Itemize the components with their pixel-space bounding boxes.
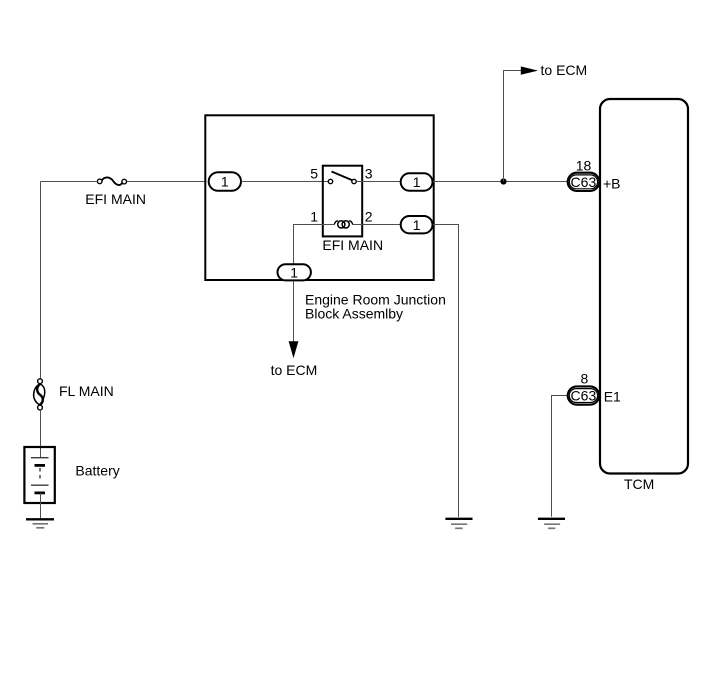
pin 2 label — [365, 209, 373, 225]
label to ECM (top) — [541, 62, 588, 78]
wire: coil pin 2 to right lower connector — [352, 224, 401, 226]
label E1 — [604, 389, 621, 405]
svg-text:C63: C63 — [571, 174, 597, 190]
svg-text:1: 1 — [290, 264, 298, 280]
wire: right upper connector to TCM +B — [433, 181, 568, 183]
fuse EFI MAIN — [97, 177, 126, 185]
svg-text:Block Assemlby: Block Assemlby — [305, 306, 403, 322]
wire: fuse to junction block — [127, 181, 207, 183]
svg-text:3: 3 — [365, 166, 373, 182]
relay EFI MAIN box — [323, 166, 362, 237]
svg-text:18: 18 — [576, 157, 592, 173]
svg-text:1: 1 — [221, 174, 229, 190]
svg-text:8: 8 — [581, 370, 589, 386]
svg-text:1: 1 — [413, 217, 421, 233]
wire: left connector to relay pin 5 — [241, 181, 328, 183]
arrow to ECM (top right) — [521, 66, 538, 74]
svg-text:Battery: Battery — [75, 462, 119, 478]
label TCM — [624, 476, 654, 492]
connector 1 (junction block right lower) — [401, 216, 433, 233]
wire: relay pin 3 to right upper connector — [357, 181, 402, 183]
pin 18 label — [576, 157, 592, 173]
svg-text:C63: C63 — [571, 388, 597, 404]
fusible link FL MAIN — [34, 379, 45, 410]
wire: bottom connector down to ECM arrow — [293, 281, 295, 342]
ground (battery) — [26, 519, 54, 528]
svg-text:+B: +B — [603, 175, 621, 191]
label to ECM (bottom) — [271, 362, 318, 378]
ground (relay coil) — [445, 519, 472, 529]
pin 1 label — [310, 209, 318, 225]
connector C63 (E1) — [568, 386, 600, 404]
pin 8 label — [581, 370, 589, 386]
wire: battery feed horizontal left segment — [41, 181, 97, 183]
svg-text:to ECM: to ECM — [271, 362, 318, 378]
label EFI MAIN (relay) — [322, 237, 383, 253]
wire: left vertical drop to FL MAIN — [40, 182, 42, 379]
wire: right lower connector to ground — [433, 225, 459, 518]
svg-text:5: 5 — [310, 166, 318, 182]
connector C63 (+B) — [568, 173, 600, 191]
wire: coil pin 1 to bottom connector — [294, 225, 336, 265]
wire: E1 to ground — [552, 396, 569, 517]
battery — [24, 447, 54, 503]
svg-text:EFI MAIN: EFI MAIN — [322, 237, 383, 253]
connector 1 (junction block left) — [209, 172, 241, 191]
svg-text:1: 1 — [413, 174, 421, 190]
wire: junction up and right to ECM arrow — [504, 71, 522, 182]
ground (E1) — [538, 519, 565, 529]
TCM box — [600, 99, 688, 474]
svg-text:FL MAIN: FL MAIN — [59, 383, 114, 399]
relay switch blade — [332, 172, 353, 181]
relay coil — [334, 221, 353, 228]
pin 3 label — [365, 166, 373, 182]
label +B — [603, 175, 621, 191]
connector 1 (junction block bottom) — [278, 264, 311, 280]
wire: FL MAIN to battery — [40, 410, 42, 458]
svg-text:E1: E1 — [604, 389, 621, 405]
label Battery — [75, 462, 119, 478]
label Engine Room Junction Block Assemlby — [305, 292, 446, 322]
wire: battery to ground — [40, 493, 42, 518]
junction block Engine Room Junction Block Assemlby — [205, 115, 433, 280]
label FL MAIN — [59, 383, 114, 399]
svg-text:EFI MAIN: EFI MAIN — [85, 191, 146, 207]
svg-text:TCM: TCM — [624, 476, 654, 492]
svg-text:1: 1 — [310, 209, 318, 225]
node junction dot — [500, 178, 506, 184]
svg-text:2: 2 — [365, 209, 373, 225]
pin 5 label — [310, 166, 318, 182]
label EFI MAIN (fuse) — [85, 191, 146, 207]
arrow to ECM (down) — [289, 341, 299, 358]
svg-text:to ECM: to ECM — [541, 62, 588, 78]
relay switch contacts — [328, 179, 356, 183]
connector 1 (junction block right upper) — [401, 173, 433, 190]
